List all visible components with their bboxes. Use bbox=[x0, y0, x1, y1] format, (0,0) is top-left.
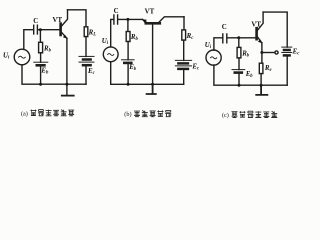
bottom rail (c) bbox=[214, 65, 287, 85]
svg-text:C: C bbox=[33, 18, 38, 25]
wire Ui top to capacitor (c) bbox=[214, 38, 222, 50]
wire junction down to Rb (b) bbox=[127, 19, 129, 31]
svg-text:VT: VT bbox=[145, 9, 155, 16]
collector lead VT (b) bbox=[159, 17, 184, 23]
wire capacitor to base (a) bbox=[38, 29, 60, 31]
svg-text:(a): (a) bbox=[21, 111, 28, 118]
wire emitter to node (c) bbox=[261, 43, 263, 53]
caption (a) gong fa she ji dian lu bbox=[31, 110, 75, 116]
node base/rail (b) bbox=[151, 83, 154, 86]
wire Ui top to capacitor (b) bbox=[111, 19, 114, 47]
svg-text:VT: VT bbox=[251, 21, 261, 28]
resistor Rc (b) bbox=[182, 30, 186, 40]
wire emitter down through rail to ground (a) bbox=[66, 38, 68, 95]
source Ui (c) bbox=[206, 50, 221, 65]
wire Eb to bottom rail (a) bbox=[40, 66, 42, 84]
resistor Rb (b) bbox=[126, 32, 130, 42]
caption (b) gong ji ji dian lu bbox=[134, 110, 171, 116]
node Eb/rail (b) bbox=[127, 83, 130, 86]
node cap/Rb junction (c) bbox=[237, 36, 240, 39]
capacitor C (b) bbox=[114, 15, 118, 24]
battery Ec (a) two cells bbox=[79, 55, 94, 57]
base lead down to rail (b) bbox=[152, 24, 154, 84]
wire Ec to bottom rail (a) bbox=[85, 66, 87, 84]
caption (c) gong ji dian ji dian lu bbox=[232, 111, 278, 117]
wire Eb to bottom rail (b) bbox=[127, 64, 129, 84]
battery Ec (b) two cells bbox=[175, 59, 191, 61]
node Eb/rail (a) bbox=[39, 83, 42, 86]
svg-text:VT: VT bbox=[53, 17, 63, 24]
wire down to Rc (b) bbox=[183, 17, 185, 30]
resistor Rb (c) bbox=[237, 47, 241, 58]
transistor VT (a) base bar bbox=[59, 24, 62, 35]
resistor Re (c) bbox=[259, 63, 263, 73]
emitter lead VT (c) with arrow bbox=[257, 37, 262, 43]
wire Rc to battery Ec (b) bbox=[183, 40, 185, 60]
tilde inside Ui (a) bbox=[19, 56, 26, 58]
output stub wire (c) bbox=[262, 52, 275, 54]
wire Ec to bottom rail (c) bbox=[286, 57, 288, 86]
wire Ui top to capacitor (a) bbox=[24, 30, 33, 50]
wire Re to bottom rail (c) bbox=[260, 74, 262, 86]
wire junction down to Rb (c) bbox=[238, 38, 240, 48]
bottom rail (a) bbox=[22, 65, 86, 84]
wire junction down to Rb (a) bbox=[39, 30, 41, 43]
source Ui (b) bbox=[103, 47, 118, 62]
node cap/Rb junction (b) bbox=[126, 18, 129, 21]
bottom rail (b) bbox=[111, 62, 184, 85]
emitter lead VT (b) with arrow bbox=[142, 19, 146, 22]
transistor VT (b) base bar bbox=[146, 22, 160, 25]
battery Ec (c) two cells bbox=[282, 46, 292, 48]
svg-text:(c): (c) bbox=[222, 112, 229, 119]
tilde inside Ui (b) bbox=[108, 54, 114, 56]
ground (b) bbox=[147, 84, 156, 94]
resistor RL (a) bbox=[84, 27, 88, 37]
svg-text:C: C bbox=[222, 24, 227, 31]
resistor Rb (a) bbox=[39, 42, 43, 53]
top wire collector to RL (a) bbox=[68, 10, 87, 27]
battery Eb (a) bbox=[34, 61, 48, 63]
wire Eb to bottom rail (c) bbox=[238, 74, 240, 85]
battery Eb (b) bbox=[122, 59, 135, 61]
collector lead VT (a) bbox=[61, 10, 67, 26]
collector lead VT (c) bbox=[257, 12, 263, 30]
ground (c) bbox=[256, 85, 267, 95]
ground (a) bbox=[62, 95, 74, 97]
node Re/rail (c) bbox=[260, 84, 263, 87]
node emitter/output (c) bbox=[260, 51, 263, 54]
node Eb/rail (c) bbox=[238, 84, 241, 87]
capacitor C (c) bbox=[223, 34, 227, 43]
battery Eb (c) bbox=[232, 69, 245, 71]
svg-text:(b): (b) bbox=[124, 111, 131, 118]
transistor VT (c) base bar bbox=[255, 28, 258, 39]
node emitter/rail (a) bbox=[65, 83, 68, 86]
wire Rb to battery Eb (a) bbox=[40, 53, 42, 62]
source Ui (a) bbox=[14, 49, 30, 65]
capacitor C (a) bbox=[34, 25, 38, 34]
wire Rb to battery Eb (b) bbox=[127, 42, 129, 60]
node cap/Rb junction (a) bbox=[39, 28, 42, 31]
output terminal circle (c) bbox=[275, 51, 278, 54]
wire Ec to bottom rail (b) bbox=[183, 70, 185, 84]
wire Rb to battery Eb (c) bbox=[238, 58, 240, 70]
tilde inside Ui (c) bbox=[211, 57, 217, 59]
wire capacitor to emitter (b) bbox=[118, 18, 142, 20]
emitter lead VT (a) with arrow bbox=[61, 32, 67, 38]
top wire collector to Ec (c) bbox=[263, 12, 287, 47]
wire RL to battery Ec (a) bbox=[85, 37, 87, 57]
wire capacitor to base (c) bbox=[227, 37, 255, 39]
wire node down to Re (c) bbox=[261, 53, 263, 64]
svg-text:C: C bbox=[114, 8, 119, 15]
